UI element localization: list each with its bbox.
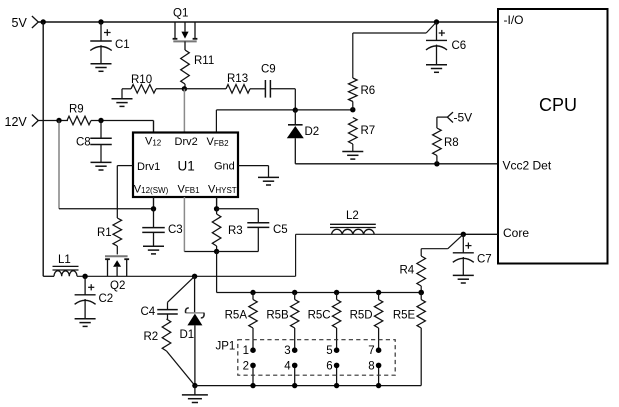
svg-text:C2: C2 [99,293,114,305]
svg-text:R13: R13 [227,73,248,85]
svg-text:R5E: R5E [393,309,416,321]
svg-text:R5D: R5D [350,309,373,321]
svg-text:R11: R11 [194,55,214,67]
svg-text:8: 8 [368,360,374,372]
svg-text:5: 5 [326,345,332,357]
svg-text:-I/O: -I/O [504,13,524,27]
svg-text:4: 4 [284,360,291,372]
svg-text:Drv1: Drv1 [137,161,160,173]
svg-text:C7: C7 [477,254,492,266]
svg-text:D1: D1 [180,329,195,341]
svg-text:5V: 5V [12,16,28,30]
svg-text:-5V: -5V [454,111,473,125]
svg-text:2: 2 [243,360,249,372]
svg-text:C6: C6 [452,40,467,52]
svg-text:6: 6 [326,360,332,372]
svg-text:Vcc2 Det: Vcc2 Det [503,159,552,173]
svg-text:C5: C5 [273,224,288,236]
svg-text:R8: R8 [444,137,459,149]
svg-text:R4: R4 [400,265,415,277]
svg-text:Drv2: Drv2 [175,136,198,148]
svg-text:1: 1 [243,345,249,357]
svg-text:C4: C4 [141,306,156,318]
svg-text:C9: C9 [261,64,276,76]
svg-text:R6: R6 [361,85,376,97]
svg-text:Core: Core [503,226,529,240]
svg-text:R7: R7 [361,125,376,137]
svg-text:C8: C8 [76,137,91,149]
svg-text:JP1: JP1 [216,341,236,353]
svg-text:7: 7 [368,345,374,357]
svg-text:R5C: R5C [308,309,331,321]
svg-text:R9: R9 [69,104,84,116]
svg-text:D2: D2 [305,126,320,138]
svg-text:L1: L1 [58,254,71,266]
svg-text:12V: 12V [5,115,28,129]
svg-text:Gnd: Gnd [214,161,235,173]
svg-text:U1: U1 [178,159,195,174]
svg-text:CPU: CPU [539,95,577,115]
svg-text:L2: L2 [346,210,359,222]
svg-text:R5B: R5B [266,309,289,321]
svg-text:C3: C3 [168,224,183,236]
svg-text:R2: R2 [144,331,159,343]
svg-text:3: 3 [284,345,290,357]
svg-text:R1: R1 [97,227,112,239]
svg-text:Q2: Q2 [110,280,125,292]
svg-text:R10: R10 [131,74,152,86]
svg-text:R5A: R5A [225,309,248,321]
svg-text:R3: R3 [228,225,243,237]
svg-text:Q1: Q1 [173,8,188,20]
svg-text:C1: C1 [115,39,130,51]
